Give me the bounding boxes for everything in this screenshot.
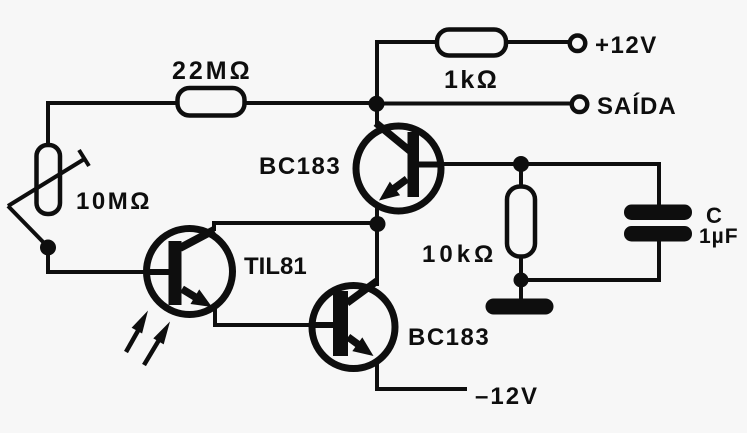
light arrow 1 xyxy=(126,308,153,352)
resistor 10k ohm xyxy=(507,187,535,257)
wire capacitor top lead xyxy=(657,162,661,208)
svg-text:TIL81: TIL81 xyxy=(244,253,307,280)
capacitor C 1uF plates xyxy=(624,205,692,242)
wire pot node to TIL81 base xyxy=(48,246,170,272)
resistor 1k ohm xyxy=(437,30,506,56)
wire ground node to capacitor bottom xyxy=(521,240,659,280)
label -12V xyxy=(475,383,539,410)
terminal +12V circle xyxy=(570,36,586,52)
ground xyxy=(486,299,554,315)
wire Q3 emitter to -12V xyxy=(377,354,467,389)
terminal SAIDA circle xyxy=(572,97,588,113)
wire 10k resistor to ground node xyxy=(519,257,523,299)
svg-text:–12V: –12V xyxy=(475,383,539,410)
label TIL81 xyxy=(244,253,307,280)
pot wiper junction dot xyxy=(40,240,56,256)
wire 22M resistor to node A xyxy=(244,101,379,105)
label SAIDA xyxy=(597,92,677,120)
label C xyxy=(706,203,722,228)
transistor Q2 BC183 top xyxy=(356,123,441,211)
svg-text:10MΩ: 10MΩ xyxy=(76,188,152,215)
wire Q2 base to capacitor top xyxy=(420,162,659,166)
wire node A up and right to 1k resistor xyxy=(377,42,438,126)
wire node C down to 10k resistor xyxy=(519,164,523,186)
label 10M ohm xyxy=(76,188,152,215)
wire TIL81 collector to node B xyxy=(214,223,377,231)
label BC183 top xyxy=(259,153,341,180)
svg-text:22MΩ: 22MΩ xyxy=(172,57,253,85)
transistor Q1 TIL81 xyxy=(147,229,233,315)
potentiometer 10M ohm body xyxy=(37,145,61,214)
label 1uF xyxy=(699,225,739,248)
wire TIL81 emitter to Q3 base xyxy=(215,306,335,325)
node A junction dot xyxy=(369,96,385,112)
svg-text:10kΩ: 10kΩ xyxy=(422,241,497,268)
label 1k ohm xyxy=(444,66,499,94)
wire Q2 emitter to node B to Q3 collector xyxy=(375,200,379,286)
label 10k ohm xyxy=(422,241,497,268)
light arrow 2 xyxy=(144,319,175,366)
label BC183 bottom xyxy=(408,324,490,351)
svg-text:BC183: BC183 xyxy=(259,153,341,180)
svg-text:SAÍDA: SAÍDA xyxy=(597,92,677,120)
node C junction dot xyxy=(513,156,529,172)
wire 1k resistor to +12V terminal xyxy=(505,40,568,44)
svg-text:+12V: +12V xyxy=(595,32,658,59)
label 22M ohm xyxy=(172,57,253,85)
wire node A to SAIDA terminal xyxy=(377,102,572,106)
transistor Q3 BC183 bottom xyxy=(311,281,395,369)
label +12V xyxy=(595,32,658,59)
svg-text:1µF: 1µF xyxy=(699,225,739,248)
svg-text:BC183: BC183 xyxy=(408,324,490,351)
svg-text:1kΩ: 1kΩ xyxy=(444,66,499,94)
wire top-left corner from pot to 22M resistor xyxy=(48,103,180,146)
resistor 22M ohm xyxy=(178,88,245,116)
potentiometer wiper arm xyxy=(8,150,89,246)
node B junction dot xyxy=(370,216,386,232)
ground node junction dot xyxy=(514,273,529,288)
